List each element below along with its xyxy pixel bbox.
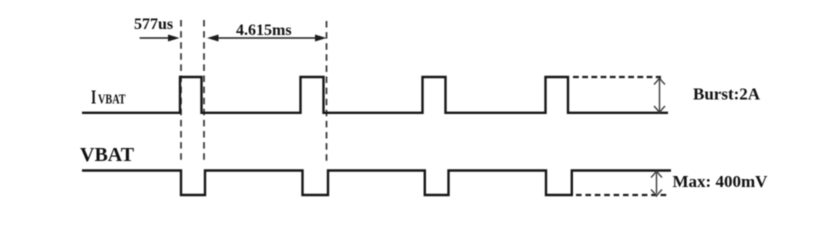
svg-text:Burst:2A: Burst:2A [693,85,761,104]
svg-text:VBAT: VBAT [80,144,135,166]
svg-text:Max: 400mV: Max: 400mV [673,172,769,191]
svg-text:I: I [91,86,97,108]
svg-text:VBAT: VBAT [98,91,126,107]
svg-text:577us: 577us [134,16,173,33]
svg-text:4.615ms: 4.615ms [236,22,292,39]
